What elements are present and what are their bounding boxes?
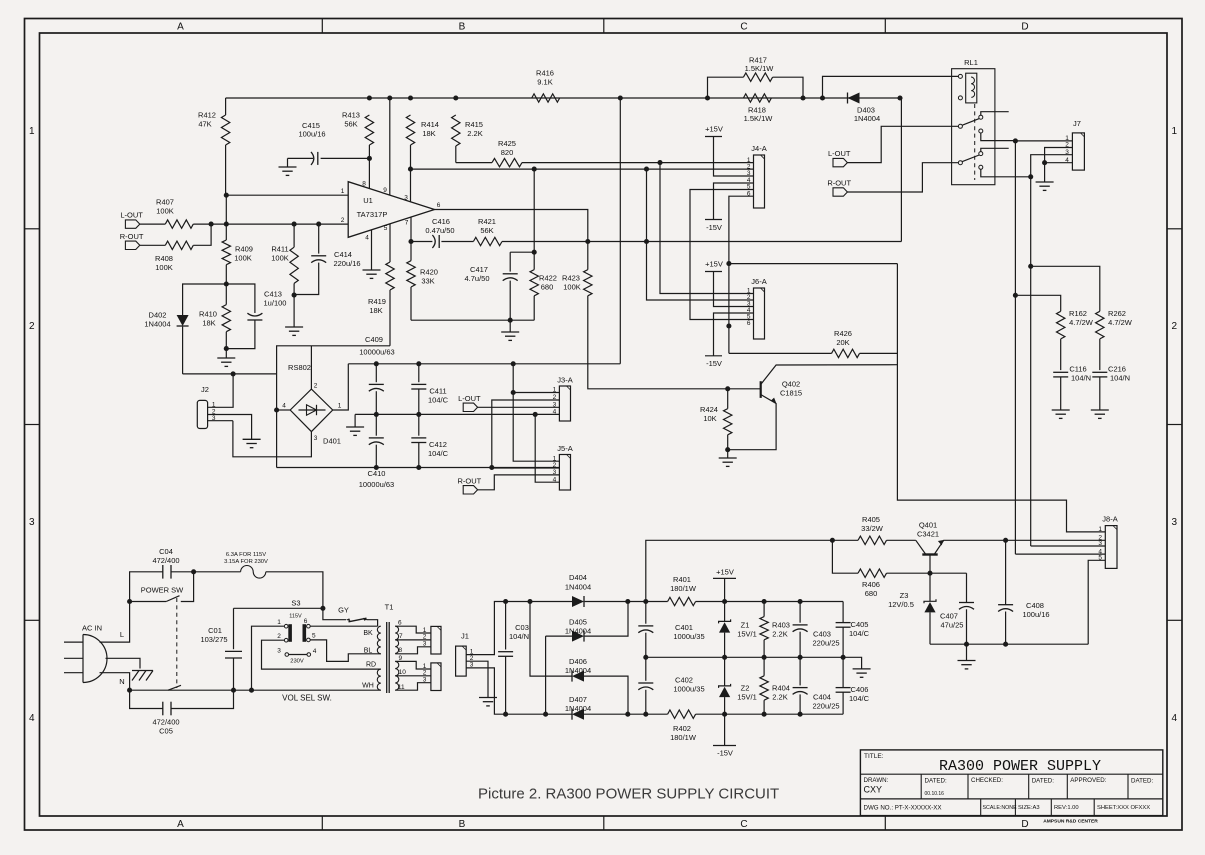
wire: J2 pin3 stub [208, 420, 233, 422]
svg-text:104/N: 104/N [509, 632, 529, 641]
svg-text:Z3: Z3 [900, 591, 909, 600]
T1 upper output block [431, 626, 441, 654]
svg-text:AC IN: AC IN [82, 624, 102, 633]
svg-text:R404: R404 [772, 684, 790, 693]
wire: secondary 9 to block [395, 661, 431, 669]
svg-text:8: 8 [362, 181, 366, 188]
capacitor C408 [1005, 540, 1007, 604]
capacitor C04 [130, 572, 163, 602]
resistor R419 [386, 262, 394, 290]
svg-text:DATED:: DATED: [1131, 777, 1154, 784]
wire: C416 output row [411, 241, 432, 243]
svg-text:2: 2 [341, 217, 345, 224]
svg-text:R406: R406 [862, 580, 880, 589]
resistor R162 tap [1015, 295, 1060, 311]
svg-text:56K: 56K [480, 226, 493, 235]
capacitor C401 [645, 602, 647, 624]
wire: S3 pin1 to neutral [252, 626, 285, 690]
title block row 3 cells [980, 799, 982, 816]
junction L/R sum [209, 222, 214, 227]
resistor R405 [858, 536, 887, 544]
svg-text:J3-A: J3-A [557, 376, 572, 385]
junction on top bus [618, 95, 623, 100]
svg-text:5: 5 [384, 225, 388, 232]
capacitor C116 [1060, 339, 1062, 370]
wire: J4 pin5 row [690, 190, 754, 320]
svg-text:SIZE:A3: SIZE:A3 [1018, 805, 1040, 811]
svg-text:1000u/35: 1000u/35 [673, 632, 704, 641]
svg-text:1u/100: 1u/100 [264, 298, 287, 307]
svg-text:4: 4 [282, 403, 286, 410]
wire: AC1 top row with D404 [506, 601, 572, 603]
svg-text:104/N: 104/N [1110, 373, 1130, 382]
wire: J4 pin2 row from R414 [411, 168, 754, 170]
svg-text:4: 4 [29, 713, 35, 724]
svg-text:10: 10 [399, 669, 407, 676]
wire: regulator mid rail [646, 656, 843, 658]
wire: J4 pin6 row and riser [729, 196, 754, 353]
svg-text:10000u/63: 10000u/63 [359, 480, 394, 489]
svg-text:230V: 230V [290, 659, 304, 665]
ground at C116 [1052, 409, 1070, 411]
-15V at J4 pin4 [714, 183, 754, 220]
ground at C415 [287, 158, 289, 167]
wire: L-channel long riser [1014, 141, 1016, 554]
wire: S3 pin6 to BK winding [310, 625, 377, 627]
input tag R-OUT [125, 241, 139, 249]
svg-text:1.5K/1W: 1.5K/1W [744, 114, 774, 123]
svg-text:D407: D407 [569, 695, 587, 704]
resistor R414 [406, 115, 414, 145]
wire: contact1 NC stub [981, 112, 1009, 116]
svg-text:R412: R412 [198, 111, 216, 120]
T1 lower output block [431, 663, 441, 691]
junction R410/C413 to ground [224, 346, 229, 351]
svg-text:SHEET:XXX OFXXX: SHEET:XXX OFXXX [1097, 805, 1150, 811]
svg-text:TITLE:: TITLE: [864, 753, 884, 760]
connector J1 [456, 646, 467, 676]
svg-text:R415: R415 [465, 120, 483, 129]
svg-text:1N4004: 1N4004 [565, 704, 591, 713]
svg-text:J6-A: J6-A [751, 277, 766, 286]
svg-text:2: 2 [29, 321, 35, 332]
svg-text:C409: C409 [365, 335, 383, 344]
AC plug prongs [64, 641, 83, 643]
resistor R415 [452, 115, 460, 146]
svg-text:B: B [459, 819, 466, 830]
neutral switch blade [168, 685, 181, 690]
svg-text:C: C [740, 819, 747, 830]
wire: J1 pin1 to AC1 rail [466, 602, 505, 655]
svg-text:104/N: 104/N [1071, 373, 1091, 382]
capacitor C216 [1099, 339, 1101, 370]
svg-text:1N4004: 1N4004 [565, 666, 591, 675]
U1 pin 4 stem and ground [371, 230, 373, 270]
svg-text:C407: C407 [940, 612, 958, 621]
capacitor C417 [510, 251, 534, 253]
svg-text:5: 5 [312, 633, 316, 640]
capacitor C403 [799, 602, 801, 623]
svg-text:R408: R408 [155, 254, 173, 263]
capacitor C404 [799, 657, 801, 685]
svg-text:C: C [740, 22, 747, 33]
wire: J6 pin1 riser from J4 pin1 [660, 163, 754, 294]
resistor R424 [724, 409, 732, 435]
wire: J3 pin2 riser to V- rail [492, 400, 560, 468]
wire: bridge pin4 wire [277, 409, 291, 411]
svg-text:4: 4 [553, 409, 557, 416]
U1 pin 2 input wire [211, 223, 348, 225]
svg-text:33/2W: 33/2W [861, 524, 884, 533]
wire: J6 pin2 riser from J4 pin2 [647, 169, 754, 300]
svg-text:2: 2 [1172, 321, 1178, 332]
wire: S3 pin5 to BL winding [310, 640, 381, 662]
U1 pin 9 stem [389, 98, 391, 195]
svg-text:100K: 100K [563, 282, 581, 291]
svg-text:DRAWN:: DRAWN: [864, 777, 889, 784]
svg-text:C05: C05 [159, 726, 173, 735]
junction on top bus [453, 95, 458, 100]
capacitor C414 [318, 224, 320, 254]
svg-text:B: B [459, 22, 466, 33]
resistor R406 [832, 540, 858, 573]
svg-text:+15V: +15V [716, 568, 734, 577]
wire: AC2 bottom row with D407 [506, 713, 572, 715]
capacitor C415 [288, 157, 314, 159]
svg-text:3: 3 [423, 677, 427, 684]
svg-text:2.2K: 2.2K [772, 692, 787, 701]
svg-text:J7: J7 [1073, 119, 1081, 128]
capacitor C05 [130, 690, 163, 708]
wire: V- rail (C410 bottom) to J5 pin2 [277, 467, 560, 469]
connector J2 [197, 400, 207, 428]
svg-text:DWG NO.: PT-X-XXXXX-XX: DWG NO.: PT-X-XXXXX-XX [864, 804, 942, 811]
AC inlet plug [82, 635, 84, 683]
svg-text:6: 6 [437, 202, 441, 209]
svg-text:D401: D401 [323, 437, 341, 446]
resistor R408 [140, 244, 166, 246]
svg-text:Q401: Q401 [919, 521, 937, 530]
svg-text:R423: R423 [562, 274, 580, 283]
resistor R426 [729, 352, 832, 354]
svg-text:2.2K: 2.2K [467, 129, 482, 138]
capacitor C406 [842, 657, 844, 687]
capacitor C405 [842, 602, 844, 623]
svg-text:4.7/2W: 4.7/2W [1108, 318, 1133, 327]
svg-text:R426: R426 [834, 329, 852, 338]
svg-text:C402: C402 [675, 676, 693, 685]
svg-text:Z1: Z1 [741, 621, 750, 630]
svg-text:10000u/63: 10000u/63 [359, 348, 394, 357]
svg-text:6: 6 [747, 320, 751, 327]
svg-text:RA300 POWER SUPPLY: RA300 POWER SUPPLY [939, 758, 1101, 775]
wire: J8 pin3 from R riser [1031, 545, 1106, 547]
svg-text:C412: C412 [429, 440, 447, 449]
svg-text:REV:1.00: REV:1.00 [1054, 805, 1079, 811]
svg-text:C403: C403 [813, 630, 831, 639]
tag L-OUT at J3 [463, 403, 477, 411]
svg-text:10K: 10K [703, 414, 716, 423]
svg-text:4: 4 [365, 235, 369, 242]
svg-text:680: 680 [865, 589, 878, 598]
svg-text:4: 4 [313, 648, 317, 655]
svg-text:7: 7 [399, 633, 403, 640]
svg-text:C411: C411 [429, 387, 446, 396]
diode D403 [848, 93, 860, 104]
relay contact 2 [958, 161, 962, 165]
svg-text:220u/25: 220u/25 [812, 638, 839, 647]
fuse [194, 571, 241, 573]
svg-text:2: 2 [277, 633, 281, 640]
resistor R412 [225, 98, 227, 115]
capacitor C411 [418, 364, 420, 382]
svg-text:6: 6 [398, 619, 402, 626]
svg-text:C216: C216 [1108, 365, 1126, 374]
resistor R410 [222, 305, 230, 332]
bridge inner diode [299, 409, 326, 411]
svg-text:1: 1 [277, 619, 281, 626]
svg-text:L: L [120, 630, 124, 639]
svg-text:3: 3 [277, 648, 281, 655]
svg-text:D406: D406 [569, 657, 587, 666]
T1 secondary winding lower [395, 661, 399, 690]
svg-text:Picture 2. RA300 POWER SUPPLY: Picture 2. RA300 POWER SUPPLY CIRCUIT [478, 786, 779, 803]
-15V output label [724, 714, 726, 745]
zener Z3 [929, 573, 931, 601]
svg-text:47u/25: 47u/25 [941, 620, 964, 629]
svg-text:D402: D402 [149, 311, 167, 320]
svg-text:18K: 18K [422, 129, 435, 138]
svg-text:SCALE:NONE: SCALE:NONE [983, 805, 1018, 811]
svg-text:R422: R422 [539, 274, 557, 283]
svg-text:R407: R407 [156, 198, 174, 207]
svg-text:47K: 47K [198, 120, 211, 129]
svg-text:R409: R409 [235, 245, 253, 254]
svg-text:RS802: RS802 [288, 363, 311, 372]
resistor R425 [456, 162, 492, 164]
svg-text:WH: WH [362, 682, 374, 689]
resistor R401 [668, 597, 696, 605]
svg-text:00.10.16: 00.10.16 [925, 791, 945, 797]
capacitor C409 [375, 364, 377, 382]
power switch on line [127, 599, 132, 604]
input tag L-OUT [125, 220, 139, 228]
svg-text:3.15A FOR 230V: 3.15A FOR 230V [224, 559, 268, 565]
svg-text:R162: R162 [1069, 309, 1087, 318]
svg-text:DATED:: DATED: [925, 777, 948, 784]
svg-text:D404: D404 [569, 573, 587, 582]
wire: J3 pin4 / J5 pin4 from mid rail [535, 414, 559, 482]
svg-text:7: 7 [405, 220, 409, 227]
capacitor C01 [234, 607, 323, 609]
svg-text:18K: 18K [202, 318, 215, 327]
svg-text:220u/16: 220u/16 [333, 259, 360, 268]
svg-text:R420: R420 [420, 268, 438, 277]
svg-text:104/C: 104/C [428, 395, 449, 404]
svg-text:C408: C408 [1026, 601, 1044, 610]
svg-text:1N4004: 1N4004 [854, 114, 880, 123]
capacitor C410 [375, 414, 377, 435]
svg-text:1: 1 [1098, 526, 1102, 533]
zener Z1 [724, 602, 726, 622]
wire: contact2 NC stub [981, 148, 1009, 151]
diode D406 row [530, 602, 572, 677]
wire: secondary 11 to block [395, 683, 431, 691]
tag R-OUT to relay [833, 188, 847, 196]
title block frame [860, 750, 1162, 816]
wire: J5 pin1 riser from V+ rail [513, 364, 559, 461]
svg-text:A: A [177, 22, 184, 33]
svg-text:2.2K: 2.2K [772, 629, 787, 638]
svg-text:100K: 100K [155, 263, 173, 272]
svg-text:3: 3 [404, 195, 408, 202]
T1 secondary winding upper [395, 626, 398, 653]
svg-text:9.1K: 9.1K [537, 77, 552, 86]
junction on top bus [897, 95, 902, 100]
svg-text:4.7u/50: 4.7u/50 [464, 274, 489, 283]
wire: R420/C417/R422 bottom row with ground [411, 319, 534, 321]
U1 pin 6 output wire [435, 210, 588, 242]
svg-text:33K: 33K [421, 276, 434, 285]
relay contact 1 [958, 124, 962, 128]
wire: D402 row to vertical [183, 373, 277, 375]
svg-text:R-OUT: R-OUT [458, 476, 482, 485]
op-amp U1 TA7317P triangle [348, 182, 434, 238]
svg-text:100u/16: 100u/16 [1022, 610, 1049, 619]
T1 core [386, 622, 388, 693]
svg-text:D405: D405 [569, 618, 587, 627]
wire: contact1 NO to J7/J8 riser [981, 133, 1016, 141]
junction on top bus [820, 95, 825, 100]
mid rail ground [843, 657, 862, 669]
relay actuation dashed line [974, 104, 976, 180]
diode D404 [572, 596, 584, 607]
resistor R422 [533, 169, 535, 252]
svg-text:12V/0.5: 12V/0.5 [888, 600, 914, 609]
svg-text:9: 9 [383, 187, 387, 194]
svg-text:100K: 100K [156, 206, 174, 215]
wire: U1 pin6 row up to relay coil [900, 98, 902, 242]
resistor R411 [293, 224, 295, 247]
connector J8-A [1105, 526, 1117, 569]
wire: J1 pin3 to AC2 rail [466, 668, 505, 714]
svg-text:8: 8 [398, 647, 402, 654]
svg-text:3: 3 [314, 435, 318, 442]
svg-text:1: 1 [29, 126, 35, 137]
svg-text:C01: C01 [208, 626, 222, 635]
wire: J7 pin4 row and ground [1045, 162, 1073, 164]
svg-text:R416: R416 [536, 69, 554, 78]
capacitor C412 [418, 414, 420, 435]
connector J6-A [754, 288, 765, 339]
svg-text:1000u/35: 1000u/35 [673, 684, 704, 693]
svg-text:1N4004: 1N4004 [565, 583, 591, 592]
svg-text:RL1: RL1 [964, 58, 978, 67]
svg-text:100K: 100K [271, 253, 289, 262]
svg-text:C413: C413 [264, 290, 282, 299]
connector J4-A [754, 155, 765, 208]
GY switch wire from fuse node [323, 608, 346, 619]
svg-text:180/1W: 180/1W [670, 733, 697, 742]
wire: J8 pin4 from L riser [1015, 553, 1105, 555]
wire: secondary 7 to block [395, 639, 431, 641]
wire: J7 pin1 row [1015, 140, 1072, 142]
wire: contact2 NO to riser [981, 169, 1031, 177]
svg-text:J8-A: J8-A [1102, 515, 1117, 524]
title block row 2 cells [920, 774, 922, 799]
svg-text:R419: R419 [368, 297, 386, 306]
svg-text:R-OUT: R-OUT [827, 179, 851, 188]
svg-text:C404: C404 [813, 693, 831, 702]
svg-text:N: N [119, 677, 124, 686]
svg-text:C410: C410 [368, 469, 386, 478]
svg-text:L-OUT: L-OUT [828, 149, 851, 158]
svg-text:R403: R403 [772, 621, 790, 630]
svg-text:R413: R413 [342, 111, 360, 120]
wire: J5 pin2 from V- rail [492, 467, 560, 470]
wire: mid rail with ground [355, 413, 559, 415]
svg-text:1: 1 [1172, 126, 1178, 137]
capacitor C402 [645, 657, 647, 681]
wire: J1 pin2 to ground [466, 661, 488, 697]
svg-text:2: 2 [314, 383, 318, 390]
svg-text:L-OUT: L-OUT [120, 211, 143, 220]
svg-text:POWER SW: POWER SW [141, 585, 184, 594]
svg-text:J1: J1 [461, 632, 469, 641]
svg-text:0.47u/50: 0.47u/50 [425, 226, 454, 235]
svg-text:A: A [177, 819, 184, 830]
svg-text:R424: R424 [700, 405, 718, 414]
svg-text:+15V: +15V [705, 125, 723, 134]
resistor R407 [140, 223, 166, 225]
resistor R416 [532, 94, 560, 102]
svg-text:103/275: 103/275 [200, 635, 227, 644]
ground at C216 [1091, 409, 1109, 411]
svg-text:DATED:: DATED: [1032, 777, 1055, 784]
wire: line L from plug [100, 602, 130, 643]
wire: D405 west riser to AC2 [545, 636, 547, 714]
svg-text:100u/16: 100u/16 [298, 130, 325, 139]
diode D402 [183, 284, 227, 315]
svg-text:R425: R425 [498, 139, 516, 148]
svg-text:R414: R414 [421, 120, 439, 129]
wire: bridge pin1 to V+ rail [333, 364, 349, 410]
resistor R418 [743, 94, 771, 102]
svg-text:U1: U1 [363, 196, 373, 205]
svg-text:6.3A FOR 115V: 6.3A FOR 115V [226, 552, 266, 558]
wire: J4 pin1 row from R425 [522, 162, 754, 164]
svg-text:220u/25: 220u/25 [812, 701, 839, 710]
svg-text:15V/1: 15V/1 [737, 629, 757, 638]
junction on top bus [800, 95, 805, 100]
tag L-OUT to relay [833, 158, 847, 166]
svg-text:R-OUT: R-OUT [120, 232, 144, 241]
svg-text:J5-A: J5-A [557, 444, 572, 453]
junction on top bus [705, 95, 710, 100]
resistor R402 [668, 710, 696, 718]
resistor R409 [224, 222, 229, 227]
wire: secondary 10 to block [395, 675, 431, 677]
svg-text:R405: R405 [862, 515, 880, 524]
wire: riser from top bus to V+ rail [619, 98, 621, 364]
svg-text:AMPSUN R&D CENTER: AMPSUN R&D CENTER [1043, 819, 1098, 825]
svg-text:Q402: Q402 [782, 380, 800, 389]
resistor R420 [410, 242, 412, 261]
svg-text:VOL SEL SW.: VOL SEL SW. [282, 694, 332, 703]
wire: regulator ground rail [930, 643, 1088, 645]
svg-text:Z2: Z2 [741, 684, 750, 693]
T1 primary winding upper [377, 626, 380, 654]
